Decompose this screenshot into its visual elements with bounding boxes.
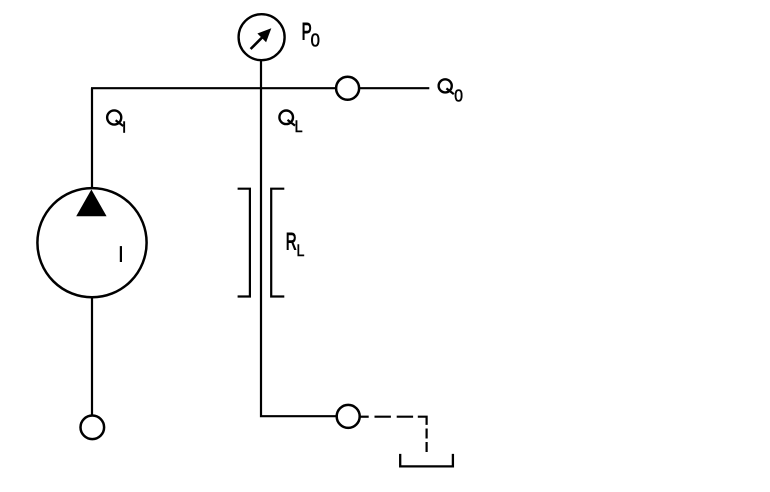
label RL [286, 229, 305, 260]
svg-text:0: 0 [454, 86, 463, 106]
svg-text:R: R [286, 229, 297, 255]
label QI [107, 110, 125, 132]
wire: left vertical branch (pump inlet riser) [91, 88, 93, 191]
pressure gauge P0 [239, 14, 285, 60]
svg-text:L: L [295, 118, 303, 136]
dashed corner piece [418, 417, 427, 425]
restrictor RL right bracket [271, 189, 284, 297]
node: load return port circle [337, 405, 360, 428]
gauge pointer [251, 37, 263, 49]
dashed vertical pieces [426, 429, 428, 439]
wire: top horizontal bus from pump branch to output [91, 87, 429, 89]
label I (pump) [120, 246, 122, 262]
restrictor RL left bracket [238, 189, 250, 297]
pump flow direction triangle [76, 190, 106, 217]
pump / flow source I [37, 188, 146, 297]
svg-text:0: 0 [311, 30, 320, 51]
wire: load branch vertical + bottom horizontal to node [261, 60, 338, 416]
node: open terminal circle (pump suction) [81, 416, 105, 440]
label Q0 [439, 79, 463, 106]
dashed return line to tank (horizontal dashes) [360, 417, 427, 452]
node: output port circle Q0 [336, 77, 359, 100]
wire: pump outlet down [91, 297, 93, 415]
label QL [279, 111, 302, 137]
svg-text:L: L [297, 242, 305, 260]
tank symbol [400, 454, 453, 467]
label P0 [302, 19, 320, 51]
